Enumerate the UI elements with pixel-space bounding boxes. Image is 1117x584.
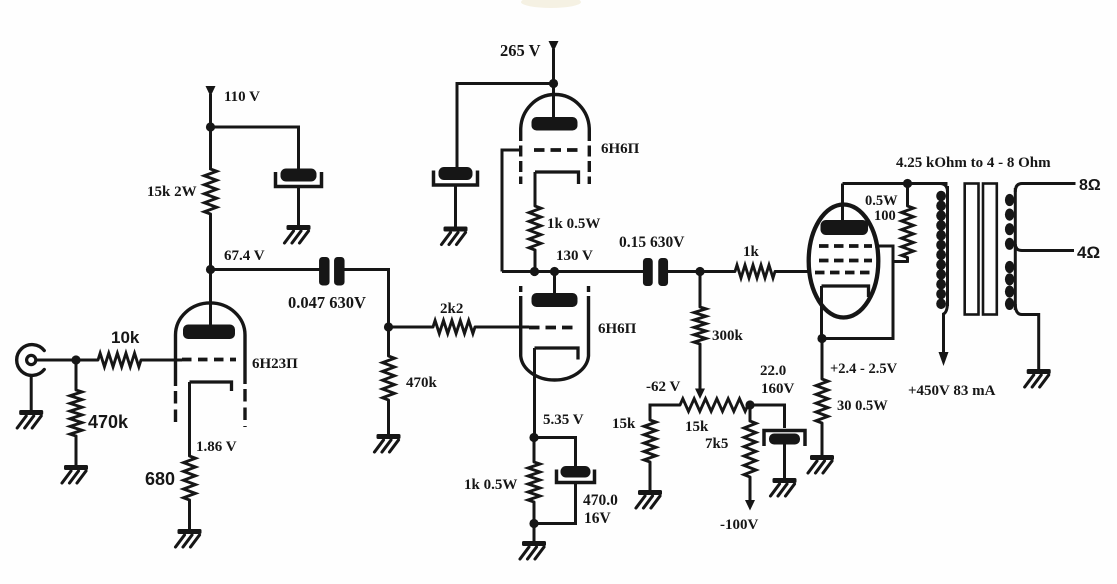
- svg-text:6H6Π: 6H6Π: [601, 141, 640, 157]
- svg-text:22.0: 22.0: [760, 363, 786, 379]
- svg-text:0.047 630V: 0.047 630V: [288, 293, 366, 312]
- svg-text:10k: 10k: [111, 328, 140, 347]
- svg-text:2k2: 2k2: [440, 301, 463, 317]
- svg-text:160V: 160V: [761, 381, 795, 397]
- svg-text:+2.4 - 2.5V: +2.4 - 2.5V: [830, 361, 898, 377]
- svg-text:5.35 V: 5.35 V: [543, 412, 584, 428]
- svg-text:6H23Π: 6H23Π: [252, 356, 298, 372]
- svg-text:6H6Π: 6H6Π: [598, 321, 637, 337]
- svg-text:1k: 1k: [743, 244, 760, 260]
- svg-text:100: 100: [874, 208, 896, 224]
- svg-text:1k 0.5W: 1k 0.5W: [547, 216, 600, 232]
- svg-text:265 V: 265 V: [500, 41, 541, 60]
- svg-text:-100V: -100V: [720, 517, 758, 533]
- svg-text:470k: 470k: [406, 375, 438, 391]
- svg-text:4.25 kOhm to 4 - 8 Ohm: 4.25 kOhm to 4 - 8 Ohm: [896, 155, 1051, 171]
- svg-text:15k: 15k: [685, 419, 709, 435]
- svg-text:680: 680: [145, 469, 175, 489]
- svg-text:0.5W: 0.5W: [865, 193, 898, 209]
- svg-text:15k 2W: 15k 2W: [147, 184, 197, 200]
- svg-text:4Ω: 4Ω: [1077, 243, 1100, 262]
- svg-text:470k: 470k: [88, 412, 129, 432]
- svg-text:1.86 V: 1.86 V: [196, 439, 237, 455]
- svg-text:300k: 300k: [712, 328, 744, 344]
- svg-text:-62 V: -62 V: [646, 379, 680, 395]
- svg-text:67.4 V: 67.4 V: [224, 248, 265, 264]
- svg-text:8Ω: 8Ω: [1079, 177, 1101, 194]
- svg-text:130 V: 130 V: [556, 248, 593, 264]
- svg-text:+450V 83 mA: +450V 83 mA: [908, 383, 996, 399]
- svg-text:110 V: 110 V: [224, 89, 260, 105]
- svg-text:7k5: 7k5: [705, 436, 728, 452]
- svg-text:1k 0.5W: 1k 0.5W: [464, 477, 517, 493]
- svg-text:470.0: 470.0: [583, 492, 618, 509]
- svg-text:15k: 15k: [612, 416, 636, 432]
- svg-text:0.15 630V: 0.15 630V: [619, 234, 685, 251]
- svg-text:30 0.5W: 30 0.5W: [837, 398, 888, 414]
- svg-text:16V: 16V: [584, 510, 612, 527]
